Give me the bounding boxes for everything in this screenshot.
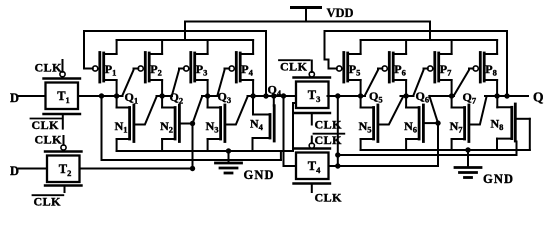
svg-text:N4: N4 [250, 117, 264, 133]
svg-text:Q6: Q6 [416, 89, 430, 105]
svg-text:Q2: Q2 [170, 90, 184, 106]
svg-text:T2: T2 [59, 162, 72, 178]
svg-text:P3: P3 [196, 62, 208, 78]
svg-text:N6: N6 [404, 119, 417, 135]
svg-text:Q3: Q3 [218, 90, 232, 106]
svg-text:Q: Q [533, 90, 544, 105]
svg-text:P4: P4 [241, 62, 253, 78]
svg-text:Q4: Q4 [268, 83, 282, 99]
svg-text:CLK: CLK [32, 118, 60, 132]
svg-text:P8: P8 [485, 62, 497, 78]
svg-text:T1: T1 [57, 89, 70, 105]
svg-text:CLK: CLK [280, 60, 308, 74]
svg-text:N7: N7 [450, 119, 464, 135]
svg-text:D: D [10, 91, 20, 105]
svg-text:CLK: CLK [315, 191, 343, 205]
svg-text:GND: GND [483, 172, 514, 186]
svg-text:P7: P7 [440, 62, 452, 78]
svg-text:D: D [10, 164, 20, 178]
svg-text:N5: N5 [359, 119, 372, 135]
svg-text:CLK: CLK [34, 195, 62, 209]
svg-text:P5: P5 [349, 62, 361, 78]
svg-text:CLK: CLK [35, 133, 63, 147]
svg-text:T3: T3 [308, 88, 321, 104]
svg-text:VDD: VDD [327, 6, 354, 20]
svg-text:CLK: CLK [35, 61, 63, 75]
svg-text:Q7: Q7 [463, 90, 477, 106]
svg-text:T4: T4 [308, 159, 321, 175]
svg-text:Q1: Q1 [125, 90, 139, 106]
svg-text:P1: P1 [105, 62, 117, 78]
svg-text:N1: N1 [115, 119, 128, 135]
svg-text:N2: N2 [160, 119, 173, 135]
svg-text:N3: N3 [206, 119, 219, 135]
svg-text:N8: N8 [491, 117, 504, 133]
svg-text:Q5: Q5 [369, 89, 383, 105]
svg-text:P2: P2 [150, 62, 162, 78]
svg-text:GND: GND [244, 168, 275, 182]
svg-text:P6: P6 [394, 62, 406, 78]
